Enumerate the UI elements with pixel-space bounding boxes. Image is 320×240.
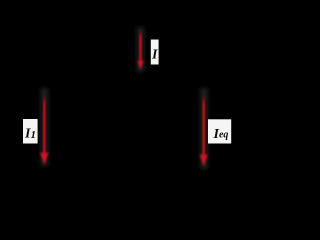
svg-text:Ieq: Ieq bbox=[213, 127, 229, 142]
svg-text:I1: I1 bbox=[24, 126, 36, 141]
svg-text:I: I bbox=[151, 48, 158, 63]
